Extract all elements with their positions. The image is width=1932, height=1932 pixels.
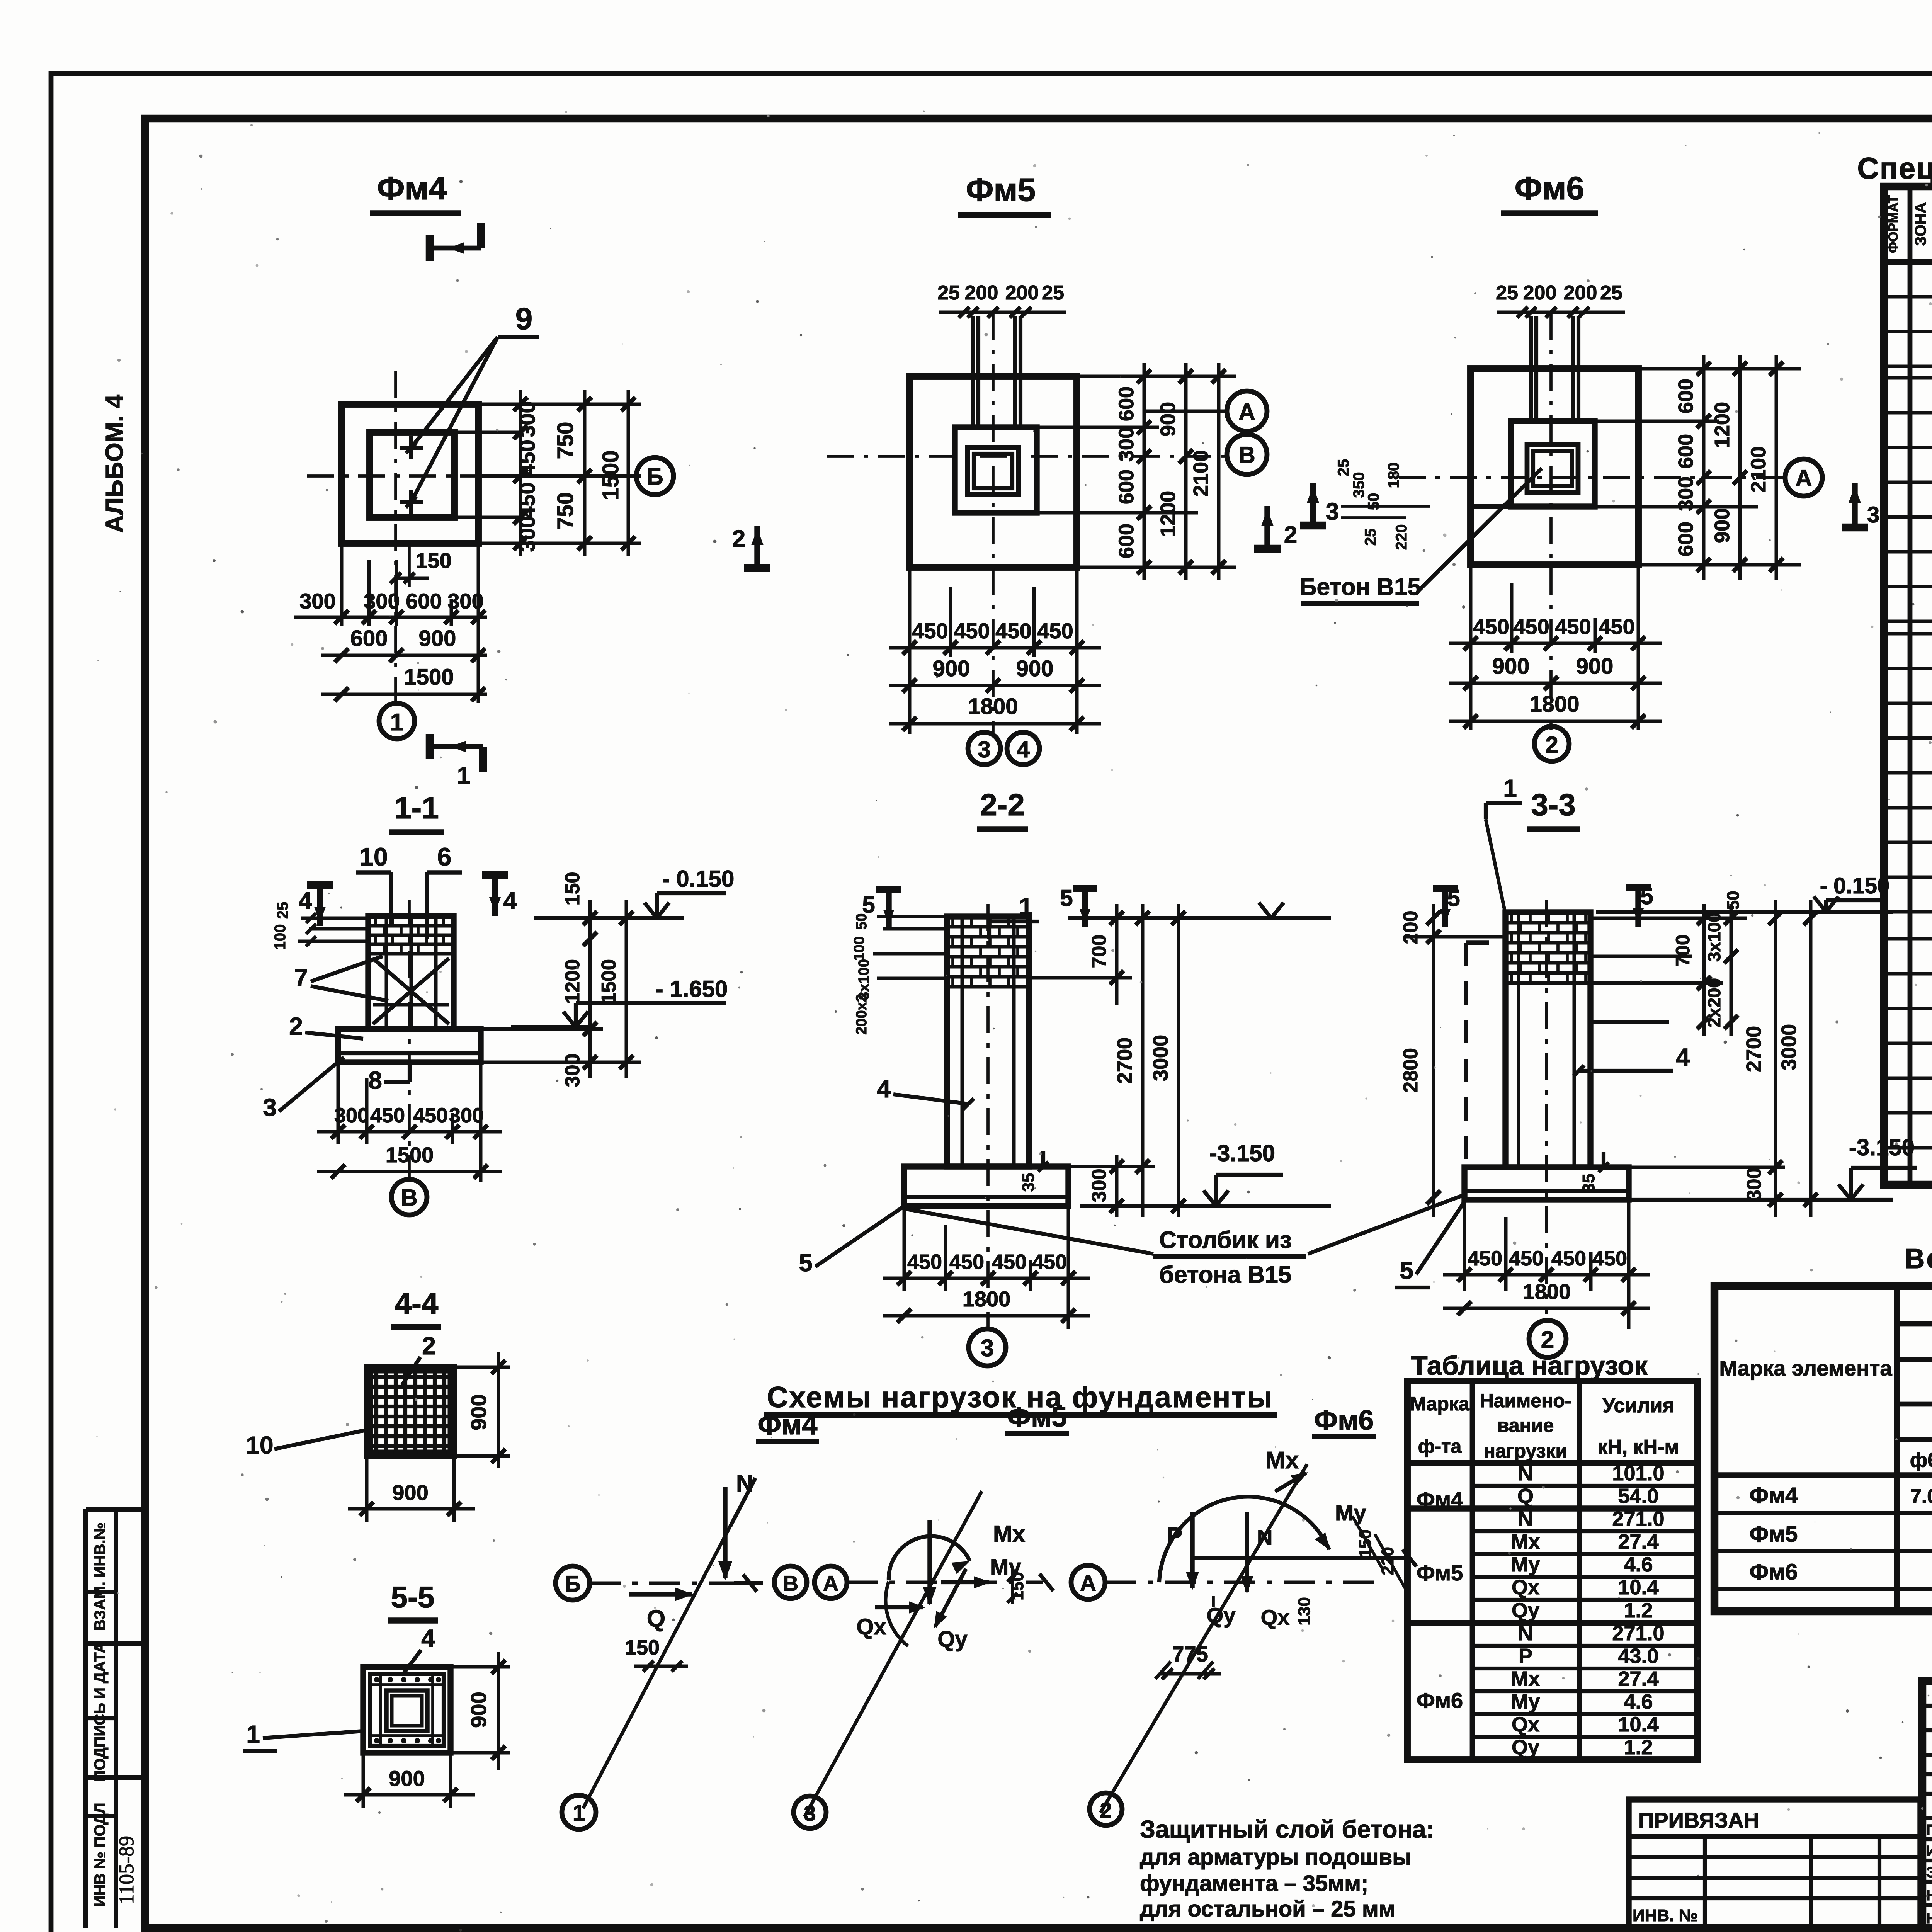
svg-text:ПРОВЕР.: ПРОВЕР. (1926, 1822, 1932, 1838)
specification table row lines (1884, 295, 1932, 299)
beton B15 leader (1419, 468, 1542, 590)
svg-text:1: 1 (457, 762, 470, 789)
svg-text:2100: 2100 (1747, 446, 1770, 493)
svg-text:НАЧ.ОТД.: НАЧ.ОТД. (1926, 1911, 1932, 1927)
column vertical rebars (385, 918, 388, 1027)
svg-text:300: 300 (299, 589, 335, 613)
3-3 left dim 200 2800 (1432, 904, 1435, 1217)
svg-text:900: 900 (392, 1480, 428, 1505)
svg-text:ф-та: ф-та (1418, 1435, 1462, 1457)
svg-text:- 1.650: - 1.650 (656, 976, 728, 1002)
svg-text:150: 150 (1356, 1529, 1375, 1558)
svg-text:101.0: 101.0 (1612, 1462, 1664, 1485)
Fm4 bottom dim chain 2 (321, 654, 487, 657)
svg-text:450: 450 (912, 619, 948, 643)
svg-text:200x2: 200x2 (854, 994, 870, 1035)
svg-text:3: 3 (1867, 502, 1879, 527)
Fm4 plan outer square (342, 404, 478, 543)
svg-text:Qу: Qу (937, 1627, 967, 1652)
3-3 column vertical rebars (1517, 914, 1520, 1165)
svg-text:900: 900 (466, 1394, 491, 1430)
svg-text:750: 750 (553, 422, 578, 459)
steel table header lines (1897, 1321, 1932, 1327)
svg-text:3x100: 3x100 (856, 959, 872, 1000)
svg-text:450: 450 (995, 619, 1031, 643)
svg-text:- 0.150: - 0.150 (662, 866, 735, 892)
svg-text:4: 4 (1676, 1043, 1690, 1071)
Fm6 bottom dim chain 2 (1449, 682, 1662, 685)
svg-text:10.4: 10.4 (1618, 1576, 1658, 1599)
svg-text:1: 1 (1503, 774, 1517, 802)
svg-text:1200: 1200 (1711, 402, 1734, 448)
axis circle A (1227, 391, 1267, 431)
4-4 right dim 900 (454, 1366, 510, 1369)
svg-text:-3.150: -3.150 (1209, 1140, 1275, 1166)
svg-text:для арматуры подошвы: для арматуры подошвы (1140, 1845, 1412, 1870)
svg-text:300: 300 (334, 1104, 369, 1127)
svg-text:900: 900 (389, 1766, 425, 1791)
svg-text:Фм6: Фм6 (1750, 1560, 1798, 1585)
5-5 square (363, 1667, 451, 1753)
svg-text:Му: Му (1511, 1553, 1540, 1576)
svg-text:Фм5: Фм5 (966, 172, 1036, 208)
svg-text:Мх: Мх (1265, 1447, 1299, 1474)
svg-text:900: 900 (1016, 656, 1054, 681)
svg-text:N: N (736, 1470, 753, 1497)
Fm5 bottom dim chain 3 (889, 722, 1101, 726)
Fm5 anchor bolts (971, 316, 975, 429)
Fm4 bottom dim chain 1 (294, 616, 487, 619)
stolbik leader left (904, 1209, 1153, 1254)
Fm6 right extension lines (1638, 367, 1801, 371)
svg-text:Фм6: Фм6 (1314, 1405, 1374, 1436)
4-4 mesh square (367, 1367, 454, 1456)
svg-text:1200: 1200 (1156, 491, 1180, 537)
steel table frame (1714, 1286, 1932, 1611)
svg-text:2700: 2700 (1742, 1026, 1765, 1072)
svg-text:вание: вание (1497, 1415, 1554, 1436)
svg-text:900: 900 (1576, 654, 1614, 679)
svg-text:450: 450 (413, 1104, 448, 1127)
svg-text:1800: 1800 (1529, 692, 1579, 717)
svg-text:1: 1 (246, 1720, 260, 1748)
svg-text:450: 450 (1468, 1247, 1502, 1270)
scheme Fm4 N force (723, 1487, 728, 1578)
2-2 right dim 3000 (1177, 904, 1180, 1217)
svg-text:180: 180 (1385, 463, 1402, 488)
svg-text:Фм4: Фм4 (1750, 1483, 1798, 1508)
svg-text:450: 450 (949, 1250, 984, 1274)
svg-text:3-3: 3-3 (1531, 787, 1576, 822)
svg-text:450: 450 (1599, 614, 1634, 639)
svg-text:А: А (823, 1571, 838, 1595)
svg-text:600: 600 (1674, 434, 1697, 469)
level -0.150 right of 2-2 (1068, 916, 1331, 920)
Fm5 bottom dim chain 1 (889, 646, 1101, 650)
svg-text:300: 300 (561, 1054, 584, 1087)
svg-text:25: 25 (1362, 529, 1379, 546)
svg-text:Защитный слой бетона:: Защитный слой бетона: (1140, 1815, 1434, 1843)
svg-text:1200: 1200 (561, 959, 584, 1004)
scheme Fm5 diagonal (804, 1491, 982, 1817)
section 3-3 footing (1464, 1167, 1629, 1200)
svg-text:А: А (1238, 399, 1255, 425)
section mark 3 right of Fm6 (1852, 483, 1857, 527)
svg-text:2800: 2800 (1400, 1048, 1422, 1093)
section 3-3 column (1505, 912, 1590, 1167)
svg-text:1800: 1800 (963, 1287, 1011, 1311)
svg-text:Фм6: Фм6 (1417, 1688, 1463, 1713)
left small dims 25 100 (301, 917, 367, 920)
svg-text:600: 600 (350, 626, 388, 651)
left margin stamp strip (86, 1507, 145, 1512)
svg-text:50: 50 (1724, 891, 1743, 910)
rebar mark upper (400, 446, 423, 450)
axis circle V (391, 1179, 427, 1215)
svg-text:4-4: 4-4 (395, 1286, 439, 1320)
svg-text:Q: Q (647, 1605, 665, 1632)
svg-text:3: 3 (263, 1094, 277, 1121)
svg-text:2: 2 (422, 1332, 436, 1360)
svg-text:N: N (1257, 1525, 1272, 1549)
scheme Fm4 Q force (629, 1592, 692, 1597)
svg-text:450: 450 (370, 1104, 405, 1127)
svg-text:Мх: Мх (1511, 1530, 1540, 1553)
5-5 rebar dots (374, 1677, 379, 1682)
svg-text:450: 450 (907, 1250, 942, 1274)
svg-text:2x200: 2x200 (1704, 978, 1724, 1027)
column cross bracing (373, 958, 449, 1024)
svg-text:1: 1 (573, 1801, 585, 1826)
svg-text:1500: 1500 (598, 450, 623, 500)
4-4 bottom dim 900 (365, 1456, 369, 1522)
svg-text:200: 200 (1400, 911, 1422, 944)
svg-text:600: 600 (1674, 379, 1697, 413)
svg-text:ПРИВЯЗАН: ПРИВЯЗАН (1638, 1808, 1759, 1832)
svg-text:25: 25 (274, 902, 291, 919)
svg-text:775: 775 (1172, 1642, 1208, 1666)
svg-text:27.4: 27.4 (1618, 1667, 1658, 1690)
svg-text:Qх: Qх (1261, 1605, 1290, 1629)
3-3 axis (1545, 900, 1548, 1314)
svg-text:Qх: Qх (1512, 1713, 1539, 1736)
svg-text:Фм4: Фм4 (1417, 1487, 1463, 1512)
stolbik leader right (1308, 1195, 1464, 1254)
section mark 3 right of Fm5 (1310, 483, 1316, 526)
svg-text:450: 450 (1513, 614, 1549, 639)
scheme Fm6 diagonal (1100, 1464, 1307, 1813)
svg-text:Фм5: Фм5 (1417, 1561, 1463, 1585)
svg-text:130: 130 (1295, 1597, 1314, 1625)
5-5 stirrup lines (370, 1683, 444, 1686)
Fm5 plan outer square (910, 376, 1077, 567)
svg-text:Б: Б (646, 464, 663, 490)
Fm4 horizontal axis (307, 474, 636, 478)
Fm5 vertical axis (992, 313, 995, 734)
axis circle 4 (1007, 732, 1039, 765)
svg-text:N: N (1518, 1462, 1533, 1485)
rebar mark lower (400, 500, 423, 504)
svg-text:5: 5 (1400, 1257, 1413, 1284)
svg-text:150: 150 (625, 1636, 660, 1659)
svg-text:ИНВ № ПОДЛ: ИНВ № ПОДЛ (92, 1803, 109, 1906)
right dim chain 150 1200 300 (588, 900, 592, 1078)
Fm6 plan inner square stolbik (1527, 445, 1578, 492)
loads table header columns (1470, 1381, 1475, 1760)
svg-text:Ведомость расхода стали н: Ведомость расхода стали на элемент, кг (1905, 1243, 1932, 1274)
svg-text:200: 200 (965, 282, 998, 304)
svg-text:4: 4 (877, 1075, 891, 1103)
scheme Fm5 circles B A (774, 1566, 807, 1599)
svg-text:3: 3 (804, 1801, 816, 1825)
right dim chain 1500 (625, 900, 628, 1078)
svg-text:бетона В15: бетона В15 (1159, 1262, 1291, 1288)
axis circle 1 (379, 703, 415, 739)
svg-text:1800: 1800 (1523, 1279, 1571, 1304)
3-3 stolbik dashed outline (1464, 943, 1468, 1167)
Fm5 bottom extension lines (908, 567, 912, 734)
svg-text:5-5: 5-5 (391, 1580, 435, 1614)
scheme Fm6 upper x axis (1192, 1556, 1406, 1560)
svg-text:900: 900 (1711, 508, 1734, 543)
svg-text:5: 5 (1060, 885, 1073, 911)
4-4 mesh grid (374, 1369, 378, 1454)
svg-text:- 0.150: - 0.150 (1820, 873, 1890, 898)
svg-text:8: 8 (368, 1066, 382, 1094)
svg-text:ФОРМАТ: ФОРМАТ (1886, 195, 1901, 253)
svg-text:Фм4: Фм4 (758, 1410, 818, 1440)
axis circle 3 (968, 732, 1000, 765)
svg-text:Фм4: Фм4 (377, 170, 447, 206)
svg-text:600: 600 (1115, 386, 1138, 421)
axis circle B right of Fm4 plan (636, 457, 673, 495)
leader 9 (411, 337, 498, 448)
title block personnel rows (1922, 1837, 1932, 1841)
3-3 right dim 300 (1769, 1193, 1782, 1207)
svg-text:35: 35 (1579, 1174, 1598, 1193)
Fm5 plan middle square (955, 427, 1037, 513)
svg-text:Qу: Qу (1207, 1603, 1236, 1628)
section 2-2 column (947, 917, 1029, 1167)
svg-text:Му: Му (1335, 1500, 1366, 1526)
svg-text:6: 6 (437, 842, 452, 871)
axis circle B (1227, 434, 1267, 474)
5-5 inner column square (386, 1690, 427, 1731)
svg-text:450: 450 (1551, 1247, 1586, 1270)
Fm5 right dim chain 3 (1217, 363, 1221, 580)
svg-text:200: 200 (1005, 282, 1039, 304)
svg-text:для остальной – 25 мм: для остальной – 25 мм (1140, 1896, 1395, 1922)
svg-text:Наимено-: Наимено- (1480, 1390, 1571, 1412)
svg-text:2100: 2100 (1189, 450, 1213, 497)
scheme Fm6 axis line (1105, 1581, 1376, 1584)
scheme Fm6 N force (1245, 1512, 1249, 1592)
svg-text:7: 7 (294, 964, 308, 992)
svg-text:10.4: 10.4 (1618, 1713, 1658, 1736)
svg-text:10: 10 (246, 1431, 273, 1459)
svg-text:Столбик из: Столбик из (1159, 1227, 1292, 1253)
footing 35 step label (1041, 1151, 1045, 1167)
scheme Fm5 arc small (886, 1582, 908, 1646)
2-2 column top rebar band (949, 925, 1027, 929)
svg-text:Qу: Qу (1512, 1599, 1539, 1622)
svg-text:900: 900 (466, 1692, 491, 1728)
scheme Fm6 circle 2 (1090, 1793, 1122, 1825)
footing 35 label 3-3 (1602, 1152, 1605, 1167)
svg-text:700: 700 (1672, 934, 1694, 966)
svg-text:Qх: Qх (856, 1614, 886, 1639)
svg-text:1800: 1800 (968, 694, 1018, 719)
svg-text:В: В (783, 1571, 798, 1595)
Fm5 right extension lines (1077, 375, 1236, 378)
svg-text:35: 35 (1019, 1173, 1038, 1192)
3-3 right dim 3000 (1809, 900, 1813, 1217)
specification table column lines (1908, 187, 1913, 1185)
5-5 bottom dim 900 (362, 1753, 365, 1808)
Fm6 horizontal axis (1399, 476, 1786, 479)
svg-text:Му: Му (1511, 1690, 1540, 1713)
3-3 right dim 2700 (1774, 900, 1777, 1217)
svg-text:А: А (1080, 1571, 1096, 1596)
svg-text:3000: 3000 (1777, 1024, 1801, 1070)
scheme Fm6 circle A (1071, 1565, 1105, 1599)
Fm5 bottom dim chain 2 (889, 684, 1101, 687)
svg-text:Мх: Мх (1511, 1667, 1540, 1690)
section 1-1 bottom dims (337, 1062, 340, 1144)
svg-text:3: 3 (978, 736, 990, 762)
svg-text:450: 450 (1473, 614, 1509, 639)
steel table verticals (1894, 1286, 1900, 1611)
svg-text:25: 25 (1496, 282, 1518, 304)
svg-text:200: 200 (1564, 282, 1597, 304)
svg-text:900: 900 (419, 626, 456, 651)
3-3 top right small dims (1590, 917, 1747, 920)
svg-text:Б: Б (565, 1571, 581, 1597)
section mark 2 left (754, 526, 760, 568)
svg-text:ф6: ф6 (1910, 1449, 1932, 1471)
svg-text:600: 600 (406, 589, 442, 613)
svg-text:450: 450 (1509, 1247, 1544, 1270)
svg-text:25: 25 (1600, 282, 1622, 304)
Fm6 bottom extension lines (1469, 565, 1473, 730)
svg-text:220: 220 (1393, 524, 1410, 550)
svg-text:ВЗАМ. ИНВ.№: ВЗАМ. ИНВ.№ (92, 1522, 109, 1631)
Fm6 vertical axis (1549, 313, 1553, 730)
svg-text:4: 4 (299, 888, 312, 914)
svg-text:600: 600 (1674, 522, 1697, 556)
svg-text:200: 200 (1523, 282, 1557, 304)
5-5 right dim 900 (451, 1665, 510, 1669)
axis circle A Fm6 (1785, 459, 1822, 496)
svg-text:750: 750 (553, 492, 578, 530)
scheme Fm5 N force (927, 1520, 932, 1604)
axis circle 2 Fm6 (1534, 726, 1569, 761)
section mark 2 right (1264, 506, 1270, 549)
specification table header (1884, 259, 1932, 265)
level -1.650 (511, 1025, 591, 1029)
level -0.150 left section (534, 916, 684, 920)
specification table frame (1884, 187, 1932, 1185)
svg-text:25: 25 (937, 282, 960, 304)
level -3.150 line (1080, 1204, 1331, 1208)
left small dims 2-2 (877, 915, 947, 918)
axis circle 3 under 2-2 (969, 1329, 1006, 1366)
column top rebar band (370, 924, 452, 928)
Fm4 vertical axis (394, 371, 397, 703)
svg-text:300: 300 (447, 589, 483, 613)
level -0.150 right of 3-3 (1596, 910, 1893, 914)
svg-text:В: В (401, 1185, 417, 1211)
svg-text:АЛЬБОМ. 4: АЛЬБОМ. 4 (100, 395, 128, 533)
svg-text:Спецификация монолитных фунд: Спецификация монолитных фундаментов Фм4.… (1857, 151, 1932, 185)
svg-text:10: 10 (359, 842, 388, 871)
scheme Fm4 axis line (590, 1582, 750, 1585)
svg-text:А: А (1795, 465, 1812, 491)
svg-text:2: 2 (1545, 732, 1558, 758)
section 1-1 footing (338, 1029, 481, 1062)
section 2-2 footing (904, 1167, 1068, 1206)
svg-text:300: 300 (515, 516, 539, 552)
svg-text:3: 3 (981, 1335, 994, 1362)
svg-text:2-2: 2-2 (980, 787, 1025, 822)
2-2 bottom dims (903, 1206, 906, 1291)
svg-text:Р: Р (1519, 1645, 1532, 1668)
svg-text:Мх: Мх (993, 1521, 1025, 1547)
scheme Fm4 diagonal axis 1 (583, 1504, 742, 1808)
Fm4 right dim chain 3 (627, 390, 630, 556)
svg-text:1105-89: 1105-89 (115, 1836, 138, 1905)
2-2 section axis (986, 904, 990, 1329)
svg-text:кН, кН-м: кН, кН-м (1597, 1436, 1679, 1458)
Fm5 right dim chain 2 (1184, 363, 1188, 580)
Fm5 horizontal axis (827, 455, 1231, 458)
svg-text:Фм5: Фм5 (1007, 1402, 1067, 1433)
Fm6 right dim chain 2 (1738, 355, 1742, 580)
svg-text:2700: 2700 (1113, 1037, 1136, 1084)
svg-text:1500: 1500 (598, 959, 620, 1004)
svg-text:25: 25 (1042, 282, 1064, 304)
section 1-1 column (368, 916, 454, 1029)
svg-text:ЗАВ.ГРУП: ЗАВ.ГРУП (1926, 1864, 1932, 1881)
svg-text:3000: 3000 (1149, 1035, 1172, 1081)
svg-text:2: 2 (1100, 1798, 1112, 1822)
svg-text:Марка элемента: Марка элемента (1719, 1356, 1892, 1380)
svg-text:450: 450 (1592, 1247, 1627, 1270)
svg-text:54.0: 54.0 (1618, 1485, 1658, 1508)
svg-text:9: 9 (515, 301, 533, 336)
Fm4 bottom dim chain 3 (321, 693, 487, 696)
2-2 column vertical rebars (961, 918, 964, 1164)
svg-text:4: 4 (1017, 736, 1030, 762)
svg-text:1.2: 1.2 (1624, 1736, 1653, 1759)
svg-text:ПОДПИСЬ И ДАТА: ПОДПИСЬ И ДАТА (92, 1642, 109, 1781)
title block upper small rows (1922, 1704, 1932, 1708)
svg-text:1-1: 1-1 (394, 791, 439, 825)
Fm4 right dim chain 1 (519, 390, 522, 556)
Fm6 plan outer square (1471, 369, 1638, 565)
svg-text:150: 150 (415, 548, 451, 573)
svg-text:Qу: Qу (1512, 1736, 1539, 1759)
3-3 bottom dims (1463, 1200, 1466, 1291)
Fm5 plan inner square (968, 447, 1019, 495)
loads table group separators (1407, 1505, 1697, 1511)
axis circle 2 under 3-3 (1529, 1320, 1566, 1357)
svg-text:600: 600 (1115, 524, 1138, 558)
svg-text:2: 2 (732, 526, 745, 552)
svg-text:100: 100 (272, 924, 289, 950)
Fm4 bottom extension lines (340, 543, 344, 626)
svg-text:4: 4 (421, 1624, 435, 1652)
